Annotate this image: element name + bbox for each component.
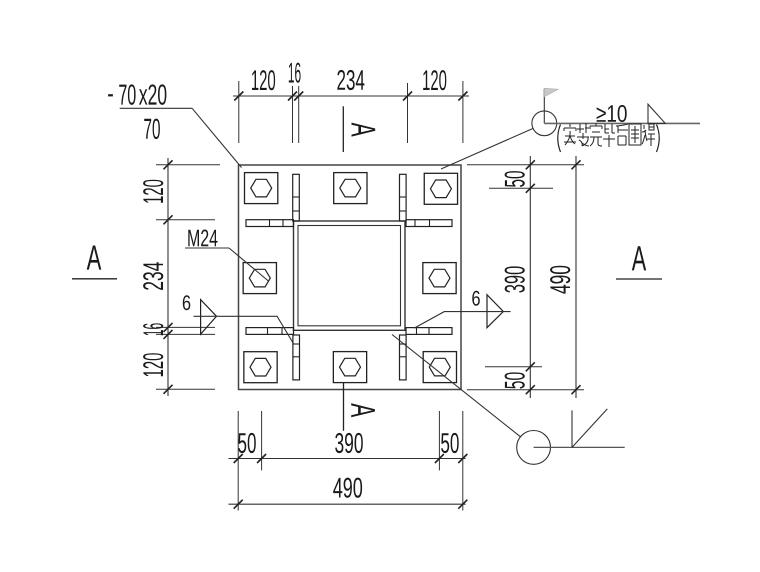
anchor bolt top-middle: [334, 173, 367, 204]
right extension line plate bottom: [467, 389, 584, 391]
top dim ticks: [234, 92, 243, 101]
note char wan(完): [590, 123, 602, 146]
top dimension line: [233, 95, 469, 97]
note char an(安): [564, 124, 576, 145]
left extension line plate bottom: [156, 388, 215, 390]
left dimension line: [167, 158, 169, 396]
section line A top: [342, 106, 344, 152]
label M24 underline: [185, 247, 229, 249]
weld symbol leader to plate: [441, 129, 533, 169]
section letter A right: [632, 246, 646, 270]
top dim text 120 right: [423, 70, 446, 90]
note char han(焊): [642, 124, 655, 146]
label -70x20 text: [108, 94, 113, 96]
weld symbol flag: [544, 88, 558, 97]
note char wei(围): [629, 124, 641, 145]
left dim ticks: [164, 160, 173, 169]
weld symbol circle top: [532, 111, 557, 136]
left dim text 120 upper: [143, 180, 163, 203]
top extension line at plate left edge: [238, 81, 240, 143]
weld bottom tail diagonal: [572, 409, 607, 448]
right dim text 490: [550, 266, 570, 294]
bottom dim ticks: [234, 454, 243, 463]
rib strip left of tube bottom: [246, 328, 294, 335]
weld circle bottom leader: [392, 335, 521, 437]
base plate outline: [239, 165, 462, 390]
right extension line plate top: [467, 164, 584, 166]
section line A left: [72, 278, 117, 280]
anchor bolt top-right: [424, 173, 457, 204]
column tube inner wall: [298, 226, 401, 326]
note char bi(毕): [603, 124, 615, 147]
left dim text 120 lower: [143, 353, 163, 376]
right extension line bolt row top: [489, 187, 553, 189]
weld bottom tail vertical: [571, 410, 573, 447]
right dim ticks: [526, 160, 535, 169]
top extension line pair at rib (16): [292, 86, 294, 143]
anchor bolt mid-left: [243, 263, 276, 294]
section letter A bottom: [351, 403, 375, 417]
rib plate bottom-left: [293, 335, 300, 380]
label 70 text: [144, 119, 160, 140]
anchor bolt top-left: [245, 173, 278, 204]
right outer dimension line: [575, 156, 577, 398]
weld size 6 right: [472, 291, 480, 306]
top extension line at rib right: [407, 83, 409, 143]
bottom extension line bolt col left: [261, 411, 263, 470]
label M24 text: [188, 230, 217, 247]
weld symbol staff: [543, 89, 545, 124]
bottom dim line 490: [229, 503, 466, 505]
weld triangle right: [487, 295, 503, 328]
label -70x20 leader: [192, 108, 241, 167]
anchor bolt mid-right: [423, 263, 456, 294]
bottom dim text 490: [333, 478, 362, 498]
bottom dim text 390: [335, 433, 363, 453]
rib plate top-left (-70x20): [293, 174, 300, 221]
bottom dim text 50 left: [238, 433, 256, 453]
anchor bolt bottom-left: [244, 352, 277, 383]
rib plate top-right: [400, 174, 407, 221]
right dim text 50 bottom: [505, 372, 525, 388]
top dim text 120: [252, 70, 275, 90]
anchor bolt bottom-right: [423, 352, 456, 383]
weld bottom reference line: [534, 446, 625, 448]
left dim text 234: [143, 262, 163, 290]
note char hou(后): [616, 124, 628, 145]
right dim text 50 top: [505, 171, 525, 187]
bottom dim text 50 right: [441, 433, 459, 453]
right dim text 390: [505, 266, 525, 292]
rib plate bottom-right: [400, 335, 407, 380]
weld symbol fillet triangle: [648, 104, 665, 123]
note close paren: [657, 125, 660, 153]
column tube outer wall: [294, 221, 406, 330]
bottom extension line bolt col right: [438, 411, 440, 470]
section line A bottom: [343, 383, 345, 431]
left extension line tube top: [156, 219, 215, 221]
left extension line plate top: [156, 164, 220, 166]
top dim text 16: [289, 63, 301, 83]
right inner dimension line: [529, 156, 531, 398]
weld symbol reference line: [544, 122, 700, 124]
weld circle bottom: [517, 431, 551, 465]
rib strip right of tube bottom: [406, 328, 452, 335]
label M24 leader: [229, 248, 269, 282]
left dim text 16: [143, 323, 163, 335]
weld triangle left: [201, 300, 217, 335]
section line A right: [616, 278, 662, 280]
rib strip right of tube top: [406, 220, 452, 227]
note open paren: [558, 125, 561, 153]
anchor bolt bottom-middle: [333, 352, 366, 383]
bottom dim line 50-390-50: [229, 458, 466, 460]
rib strip left of tube top: [246, 220, 294, 227]
weld size 6 left: [183, 295, 191, 310]
weld note >=10: [597, 105, 627, 122]
note char zhuang(装): [577, 123, 589, 146]
label -70x20 underline: [120, 107, 192, 109]
right extension line bolt row bottom: [485, 366, 542, 368]
left extension line strip bottom: [156, 333, 215, 335]
weld leader left: [194, 316, 294, 343]
bottom extension line plate right: [462, 411, 464, 511]
section letter A left: [87, 246, 102, 270]
top dim text 234: [337, 70, 364, 90]
section letter A top: [352, 123, 376, 137]
bottom extension line plate left: [237, 411, 239, 511]
left extension line strip top: [156, 326, 215, 328]
weld leader right: [414, 312, 510, 329]
top extension line at plate right edge: [462, 81, 464, 143]
